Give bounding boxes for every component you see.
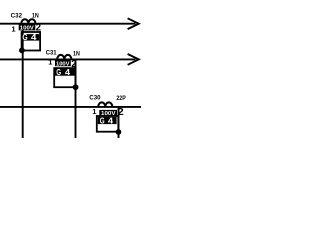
svg-text:100V: 100V	[56, 61, 70, 67]
svg-text:4: 4	[31, 33, 37, 42]
part box U (C32)	[22, 32, 40, 51]
svg-text:1N: 1N	[32, 14, 39, 20]
junction dot (C30)	[116, 129, 122, 135]
arrow head net 1	[128, 18, 139, 29]
junction dot (C31)	[73, 84, 79, 90]
capacitor C31 coil symbol	[57, 55, 71, 60]
pin band 3 4 (C30)	[98, 117, 117, 124]
arrow head net 2	[128, 54, 139, 65]
junction dot (C32)	[19, 48, 25, 54]
svg-text:4: 4	[65, 68, 71, 77]
part box U (C30)	[97, 116, 119, 132]
svg-text:C32: C32	[11, 14, 23, 20]
vertical wire from C32 box	[22, 23, 24, 138]
wire net 2 (middle horizontal)	[0, 58, 136, 60]
vertical wire from C31 box	[75, 59, 77, 138]
capacitor C30 coil symbol	[98, 102, 112, 107]
svg-text:100V: 100V	[20, 26, 35, 32]
capacitor C32 coil symbol	[21, 19, 35, 24]
svg-text:22P: 22P	[116, 96, 125, 102]
svg-text:G: G	[56, 68, 61, 77]
svg-text:G: G	[100, 116, 105, 125]
pin band 3 4 (C32)	[22, 34, 39, 41]
svg-text:1N: 1N	[73, 52, 80, 58]
value box 100V (C32)	[19, 24, 36, 30]
part box U (C31)	[54, 68, 75, 87]
svg-text:G: G	[22, 33, 27, 42]
wire net 3 (bottom horizontal)	[0, 106, 141, 108]
svg-text:C31: C31	[46, 50, 58, 56]
svg-text:C30: C30	[89, 96, 101, 102]
wire net 1 (top horizontal)	[0, 23, 136, 25]
value box 100V (C30)	[99, 110, 117, 116]
svg-text:4: 4	[108, 116, 114, 125]
pin band 3 4 (C31)	[55, 69, 75, 76]
vertical wire from C30 box	[118, 107, 120, 138]
value box 100V (C31)	[55, 60, 71, 66]
